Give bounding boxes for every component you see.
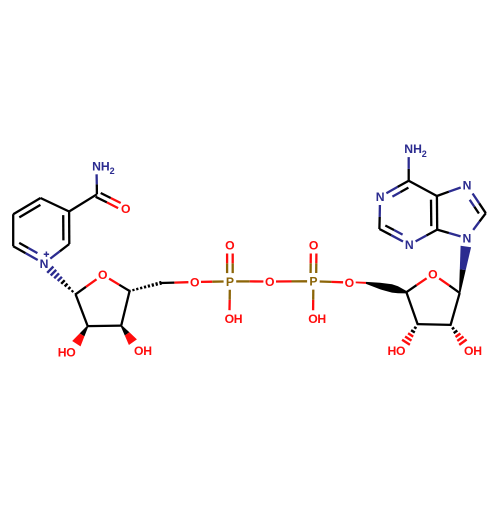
double bond C3=C2 pyridinium xyxy=(68,212,71,245)
svg-text:O: O xyxy=(225,239,234,253)
hashed wedge C4-C5 left ribose xyxy=(128,290,131,292)
bond C3-C4 right ribose xyxy=(406,292,417,324)
bond O4-C4 left ribose xyxy=(109,279,119,285)
bond C4-C3 pyridinium xyxy=(41,198,70,212)
svg-text:H: H xyxy=(234,312,243,326)
charge plus on N1 xyxy=(44,252,49,257)
bond N7-C5 adenine xyxy=(449,188,461,192)
bond C1-O4 left ribose xyxy=(76,287,86,295)
bond C4-O4 right ribose xyxy=(406,285,416,292)
bond C5-O ester left xyxy=(161,281,175,284)
bond C6-C5 adenine xyxy=(409,181,437,196)
svg-text:P: P xyxy=(309,275,317,289)
solid wedge C2-OH left ribose xyxy=(80,326,89,337)
bond C1-C2 right ribose xyxy=(451,293,460,325)
svg-text:O: O xyxy=(396,344,405,358)
solid wedge C1-N9 xyxy=(459,269,466,293)
svg-text:O: O xyxy=(345,276,354,290)
svg-text:O: O xyxy=(308,312,317,326)
bond N9-C8 adenine xyxy=(473,222,479,230)
bond C4-N3 adenine xyxy=(426,230,437,236)
bond C4-N9 adenine xyxy=(437,230,449,233)
hashed wedge C2-OH right ribose xyxy=(450,323,451,326)
svg-text:O: O xyxy=(428,267,437,281)
svg-text:N: N xyxy=(463,179,472,193)
svg-text:O: O xyxy=(190,275,199,289)
bond O4-C1 right ribose xyxy=(439,278,449,285)
bond O bridge-P2 xyxy=(276,280,292,282)
hashed wedge N1-C1 ribose xyxy=(47,267,53,273)
double bond P1=O xyxy=(232,263,234,273)
bond O ester-C5 right ribose xyxy=(356,282,366,284)
amide double bond C=O xyxy=(96,197,107,203)
svg-text:O: O xyxy=(66,345,75,359)
bond C6-C5 pyridinium xyxy=(12,214,14,246)
svg-text:N: N xyxy=(376,190,385,204)
svg-text:H: H xyxy=(473,344,482,358)
bond P1-O bridge xyxy=(236,280,250,282)
bond P2-OH xyxy=(312,290,314,300)
svg-text:N: N xyxy=(40,257,49,271)
svg-text:O: O xyxy=(121,202,130,216)
svg-text:H: H xyxy=(413,142,422,156)
svg-text:H: H xyxy=(317,312,326,326)
amide bond C-N xyxy=(96,184,98,194)
double bond N1=C6 adenine xyxy=(386,187,397,193)
bond C2-C3 right ribose xyxy=(418,323,451,326)
svg-text:O: O xyxy=(225,312,234,326)
bond P1-OH xyxy=(229,290,231,300)
svg-text:O: O xyxy=(309,239,318,253)
bond C2-N1 pyridinium xyxy=(60,244,70,251)
bond O ester-P1 xyxy=(201,281,212,283)
svg-text:H: H xyxy=(101,159,110,173)
bond C3-C2 left ribose xyxy=(88,324,122,327)
double bond P2=O xyxy=(315,263,317,273)
svg-text:N: N xyxy=(92,159,101,173)
svg-text:N: N xyxy=(404,142,413,156)
hashed wedge C3-OH right ribose xyxy=(417,323,418,326)
svg-text:O: O xyxy=(134,344,143,358)
bond C3-amide carbon xyxy=(69,194,97,211)
solid wedge C5-C4 right ribose xyxy=(366,282,407,294)
svg-text:2: 2 xyxy=(422,149,427,159)
solid wedge C3-OH left ribose xyxy=(121,325,130,335)
bond C6-NH2 adenine xyxy=(408,169,410,181)
double bond C5=C4 pyridinium xyxy=(13,198,40,214)
bond P2-O ester right xyxy=(320,280,332,283)
svg-text:O: O xyxy=(464,344,473,358)
double bond N3=C2 adenine xyxy=(391,235,403,241)
double bond C8=N7 adenine xyxy=(479,203,486,213)
double bond N1=C6 pyridinium xyxy=(26,253,38,260)
svg-text:O: O xyxy=(265,275,274,289)
bond C2-N1 adenine xyxy=(378,217,381,229)
svg-text:N: N xyxy=(405,238,414,252)
bond C4-C3 left ribose xyxy=(121,291,129,326)
bond C2-C1 left ribose xyxy=(76,294,88,326)
svg-text:O: O xyxy=(98,268,107,282)
svg-text:N: N xyxy=(462,232,471,246)
double bond C5=C4 adenine xyxy=(436,196,439,230)
svg-text:2: 2 xyxy=(110,166,115,176)
svg-text:H: H xyxy=(143,344,152,358)
svg-text:P: P xyxy=(226,275,234,289)
